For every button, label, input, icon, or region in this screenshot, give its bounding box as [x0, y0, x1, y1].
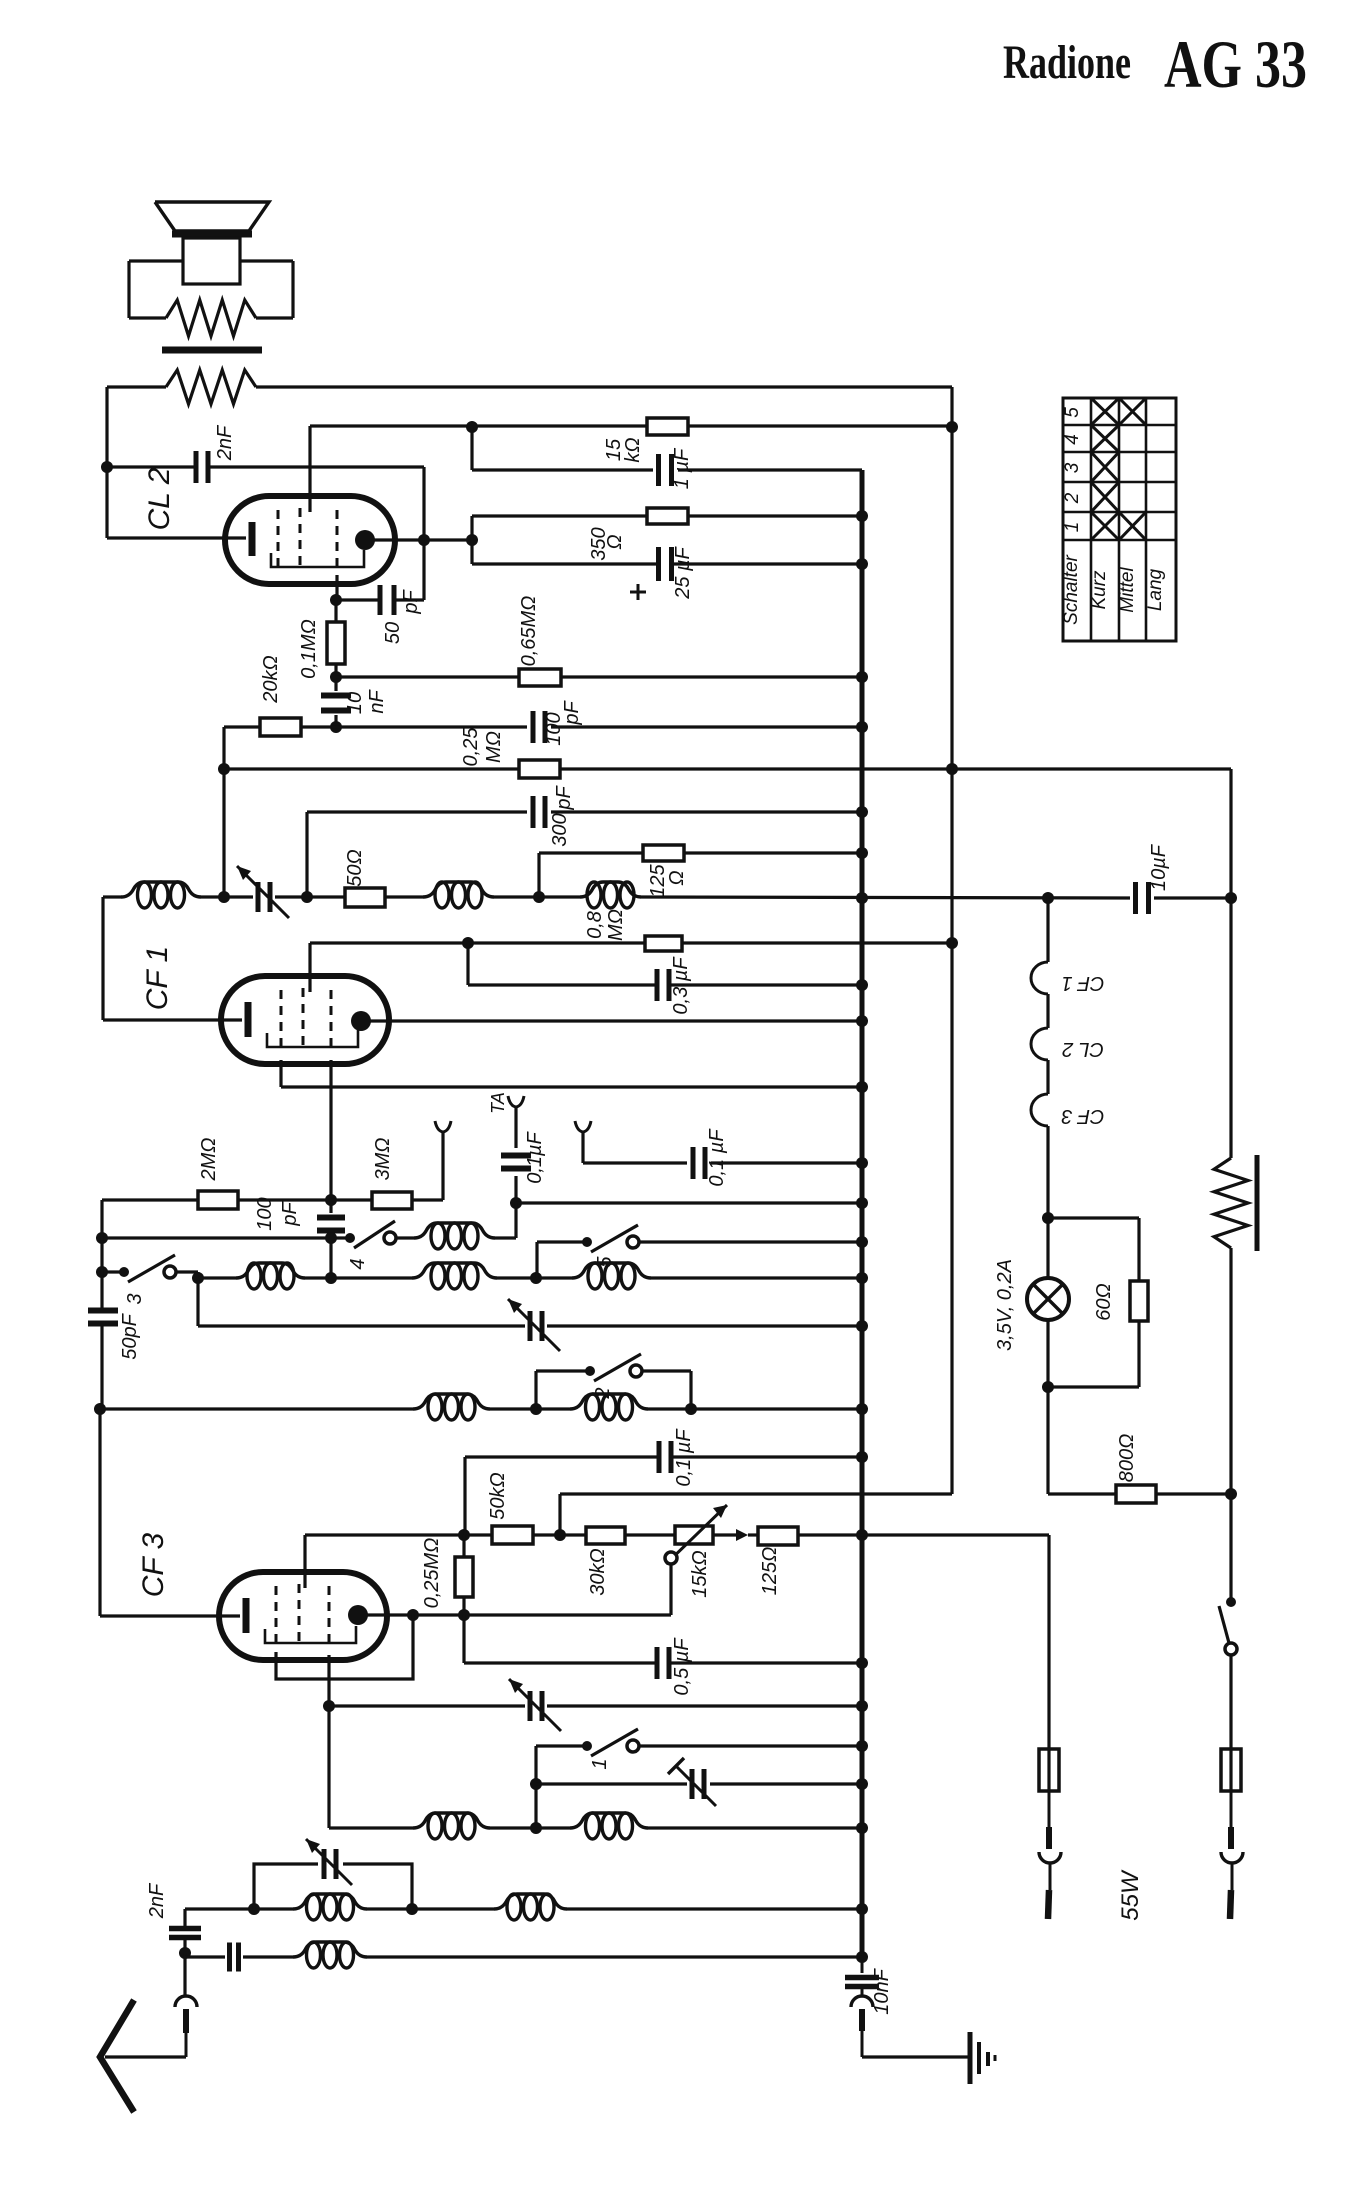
svg-text:pF: pF — [400, 589, 422, 615]
svg-text:25 µF: 25 µF — [672, 545, 694, 599]
resistor 60Ohm — [1048, 1218, 1148, 1387]
node junction x307/897 — [301, 891, 313, 903]
label 100pF upper — [543, 700, 583, 746]
label 50pF — [382, 589, 422, 645]
svg-text:0,1 µF: 0,1 µF — [673, 1428, 695, 1487]
inductor L12 — [293, 1894, 367, 1920]
label 5 — [594, 1256, 616, 1268]
speaker LS cone — [155, 202, 269, 234]
svg-text:CF 3: CF 3 — [137, 1532, 170, 1597]
capacitor 10uF — [1136, 882, 1149, 914]
node junction 0.65M row — [330, 671, 342, 683]
tube CF3 grid dashes — [276, 1584, 329, 1648]
variable capacitor C-tune3 — [509, 1679, 561, 1731]
resistor 0.8MOhm — [645, 936, 682, 951]
tube CF1 grid line from top — [308, 943, 311, 992]
node junction x691/1409 — [685, 1403, 697, 1415]
svg-text:Ω: Ω — [604, 534, 626, 549]
node bus junction y985 — [856, 979, 868, 991]
node junction x331/1238 — [325, 1232, 337, 1244]
inductor L2 — [423, 882, 494, 908]
node bus junction y516 — [856, 510, 868, 522]
resistor 0.1MOhm — [327, 622, 345, 664]
inductor L11 — [570, 1813, 648, 1839]
svg-text:2MΩ: 2MΩ — [198, 1138, 220, 1182]
tube CF1 anode dot — [351, 1011, 371, 1031]
svg-text:0,8: 0,8 — [584, 911, 606, 939]
node junction x254/1909 — [248, 1903, 260, 1915]
svg-text:MΩ: MΩ — [605, 909, 627, 941]
resistor 50kOhm — [492, 1526, 533, 1544]
label 15kOhm — [603, 437, 644, 462]
wire CF1 anode row — [370, 1019, 862, 1022]
label 50kOhm — [487, 1472, 509, 1519]
svg-text:50kΩ: 50kΩ — [487, 1472, 509, 1519]
inductor L10 — [413, 1813, 490, 1839]
label 10uF — [1148, 843, 1170, 891]
node bus junction y1087 — [856, 1081, 868, 1093]
speaker frame / transformer secondary box — [129, 261, 293, 318]
svg-text:Ω: Ω — [666, 870, 688, 885]
resistor 0.25MOhm vertical — [455, 1557, 473, 1597]
node junction y943/x952 — [946, 937, 958, 949]
switch contact 4 — [345, 1221, 396, 1248]
wire cathode row y1706 — [329, 1704, 862, 1707]
wire agc riser x465 — [463, 1457, 466, 1535]
node bus junction y1828 — [856, 1822, 868, 1834]
resistor 125Ohm lower — [758, 1527, 798, 1545]
tube CL2 envelope — [225, 496, 395, 584]
label heater CF1 — [1062, 972, 1105, 994]
tube CL2 cathode bar — [249, 522, 256, 556]
tube CF3 cathode bar — [243, 1598, 250, 1633]
svg-text:4: 4 — [1062, 434, 1083, 445]
node junction x185/1953 — [179, 1947, 191, 1959]
node junction x329/1706 — [323, 1700, 335, 1712]
variable capacitor C-ant — [306, 1839, 352, 1885]
transformer core — [162, 347, 262, 354]
wire left riser x224 — [222, 727, 225, 897]
node junction x536/1278 — [530, 1272, 542, 1284]
wire switch1 left — [536, 1746, 584, 1828]
node junction lamp top — [1042, 1212, 1054, 1224]
ground jack — [851, 1987, 873, 2057]
svg-text:20kΩ: 20kΩ — [260, 655, 282, 703]
inductor L3 — [580, 882, 641, 908]
node junction lamp bottom — [1042, 1381, 1054, 1393]
svg-text:60Ω: 60Ω — [1093, 1283, 1115, 1320]
label 50pF band — [119, 1312, 141, 1359]
node bus junction y1909 — [856, 1903, 868, 1915]
wire riser x539 — [537, 853, 540, 897]
wire left drop from transformer — [105, 387, 108, 538]
wire 350 row — [472, 514, 862, 517]
node bus junction y812 — [856, 806, 868, 818]
label 10nF — [344, 689, 388, 715]
wire 25uF row — [472, 562, 862, 565]
svg-text:0,3 µF: 0,3 µF — [670, 956, 692, 1015]
wire CL2 screen drop x337 — [335, 575, 338, 600]
capacitor 0.3uF — [657, 969, 669, 1001]
label 0.65MOhm — [518, 596, 540, 667]
wire CF1 cathode chain x331 — [329, 1060, 332, 1278]
node bus junction y1278 — [856, 1272, 868, 1284]
svg-text:300: 300 — [549, 813, 571, 846]
wire 0.1uF agc row — [465, 1455, 862, 1458]
bus line vertical — [860, 470, 865, 1959]
wire row y1238 — [102, 1236, 347, 1239]
label 60Ohm — [1093, 1283, 1115, 1320]
label 4 — [347, 1258, 369, 1269]
wire 1uF riser x472 — [470, 427, 473, 470]
node bus junction y564 — [856, 558, 868, 570]
wire right mains column — [1229, 769, 1232, 1600]
wire mains column left — [1047, 1535, 1050, 1749]
label 55W — [1117, 1869, 1144, 1921]
wire varcap row y1326 — [198, 1324, 862, 1327]
label 2 — [592, 1387, 614, 1399]
node junction x102/1238 — [96, 1232, 108, 1244]
node junction x224/897 — [218, 891, 230, 903]
svg-text:50Ω: 50Ω — [344, 849, 366, 886]
label 10nF ground — [871, 1967, 893, 2014]
capacitor 2nF — [196, 451, 208, 483]
node bus junction y1242 — [856, 1236, 868, 1248]
label 3MOhm — [372, 1138, 394, 1181]
capacitor series antenna — [230, 1943, 239, 1972]
node junction x198/1278 — [192, 1272, 204, 1284]
svg-text:Radione: Radione — [1003, 36, 1131, 89]
svg-text:3: 3 — [1062, 462, 1083, 473]
wire top line from transformer to right — [107, 385, 952, 388]
svg-text:0,5 µF: 0,5 µF — [671, 1637, 693, 1696]
node bus junction y1457 — [856, 1451, 868, 1463]
inductor L4 — [414, 1223, 495, 1249]
wire row y1203 — [516, 1201, 862, 1204]
wire screen row y1087 — [281, 1085, 862, 1088]
svg-text:50: 50 — [382, 622, 404, 644]
node junction 2nF row left — [101, 461, 113, 473]
label 0.8MOhm — [584, 909, 627, 941]
wire left column to CF3 — [98, 1409, 101, 1616]
svg-text:0,65MΩ: 0,65MΩ — [518, 596, 540, 667]
inductor L7 — [572, 1263, 651, 1289]
inductor L5 — [236, 1263, 305, 1289]
table Schalter — [1061, 398, 1176, 641]
node junction x952/427 — [946, 421, 958, 433]
resistor 20kOhm — [260, 718, 301, 736]
wire CF3 cathode lead — [100, 1614, 240, 1617]
svg-text:15kΩ: 15kΩ — [689, 1550, 711, 1597]
wire 20k row — [224, 725, 862, 728]
svg-text:kΩ: kΩ — [622, 437, 644, 462]
wire row y1828 — [329, 1826, 862, 1829]
svg-text:5: 5 — [1062, 407, 1083, 418]
node junction x331/1278 — [325, 1272, 337, 1284]
node junction x102/1272 — [96, 1266, 108, 1278]
switch contact 5 — [582, 1225, 639, 1252]
wire row y1909 — [185, 1907, 862, 1910]
node bus junction y1163 — [856, 1157, 868, 1169]
label 25uF — [672, 545, 694, 599]
label lamp — [994, 1259, 1016, 1351]
inductor L14 — [293, 1942, 367, 1968]
node bus junction y727 — [856, 721, 868, 733]
title AG 33 — [1164, 26, 1307, 102]
inductor L13 — [494, 1894, 567, 1920]
switch contact 1 — [582, 1729, 639, 1756]
wire feed line x952 — [560, 387, 952, 1494]
svg-text:AG 33: AG 33 — [1164, 26, 1307, 102]
capacitor 50pF — [337, 585, 424, 615]
svg-text:30kΩ: 30kΩ — [587, 1548, 609, 1595]
title Radione — [1003, 36, 1131, 89]
resistor 2MOhm — [198, 1191, 238, 1209]
antenna TA fork — [508, 1096, 524, 1148]
resistor 125Ohm upper — [643, 845, 684, 861]
switch contact 3 — [119, 1255, 176, 1282]
wire 0.5uF drop — [462, 1615, 465, 1663]
wire feed to 50k row — [558, 1494, 561, 1535]
wire trimmer row y1784 — [536, 1782, 862, 1785]
tube CF3 grid line from top — [303, 1535, 306, 1588]
label 0.1uF TA — [524, 1130, 546, 1183]
tube CF3 envelope — [219, 1572, 387, 1660]
svg-text:3,5V, 0,2A: 3,5V, 0,2A — [994, 1259, 1016, 1351]
transformer winding (speaker side) zigzag — [166, 300, 256, 336]
label 300pF — [549, 785, 575, 847]
node bus junction y1663 — [856, 1657, 868, 1669]
node junction y769/x952 — [946, 763, 958, 775]
svg-text:CF 3: CF 3 — [1062, 1105, 1105, 1127]
variable capacitor C-tune2 — [508, 1299, 560, 1351]
svg-text:CF 1: CF 1 — [141, 946, 174, 1010]
wire left column x102 — [100, 1200, 103, 1413]
speaker voice-coil box — [183, 238, 240, 284]
node bus junction y1409 — [856, 1403, 868, 1415]
svg-text:0,25MΩ: 0,25MΩ — [421, 1538, 443, 1609]
arrow wiper direction — [736, 1529, 748, 1541]
node junction x536/1828 — [530, 1822, 542, 1834]
node bus junction y1746 — [856, 1740, 868, 1752]
wire 50k row y1535 — [305, 1533, 1049, 1536]
lamp 3.5V 0.2A — [1027, 1218, 1069, 1387]
svg-text:3MΩ: 3MΩ — [372, 1138, 394, 1181]
node junction x516/1203 — [510, 1197, 522, 1209]
svg-text:1: 1 — [1062, 522, 1083, 533]
tube CL2 grid dashes — [278, 508, 337, 572]
label 125Ohm lower — [759, 1547, 781, 1596]
svg-text:2nF: 2nF — [214, 424, 236, 461]
node junction anode/424 — [418, 534, 430, 546]
capacitor 50pF band — [88, 1311, 118, 1324]
wire row y1272 stub — [102, 1270, 121, 1273]
tube CF3 anode dot — [348, 1605, 368, 1625]
tube CF1 grid dashes — [281, 988, 331, 1052]
wire row y1957 — [185, 1953, 862, 1957]
wire CL2 cathode lead — [107, 536, 246, 539]
svg-text:0,1µF: 0,1µF — [524, 1130, 546, 1183]
node junction x464/1615 — [458, 1609, 470, 1621]
wire switch1 to bus — [639, 1744, 862, 1747]
svg-text:10: 10 — [344, 692, 366, 714]
label 0.25MOhm — [460, 727, 505, 767]
resistor 50Ohm — [345, 888, 385, 907]
plus sign 25uF — [630, 584, 646, 600]
svg-text:4: 4 — [347, 1258, 369, 1269]
resistor 0.25MOhm — [519, 760, 560, 778]
switch mains — [1219, 1597, 1237, 1749]
switch pot tap circle — [665, 1552, 677, 1615]
wire coil row y897 — [103, 897, 1231, 898]
wire 1uF row — [472, 468, 862, 471]
label CF1 — [141, 946, 174, 1010]
antenna A1 fork — [435, 1121, 451, 1200]
svg-text:55W: 55W — [1117, 1869, 1144, 1921]
svg-text:125Ω: 125Ω — [759, 1547, 781, 1596]
wire varcap row riser — [196, 1278, 199, 1326]
label 0.3uF — [670, 956, 692, 1015]
wire vertical grid-coupling x424 — [422, 467, 425, 600]
capacitor 2nF antenna — [169, 1909, 201, 1950]
node bus junction y1203 — [856, 1197, 868, 1209]
wire 2nF row — [107, 465, 424, 468]
resistor 30kOhm — [586, 1527, 625, 1544]
wire row y1409 — [100, 1407, 862, 1410]
node junction x413/1615 — [407, 1609, 419, 1621]
wire switch2 right drop — [642, 1371, 691, 1409]
node junction x539/897 — [533, 891, 545, 903]
node junction x560/1535 — [554, 1529, 566, 1541]
node junction x1048/898 — [1042, 892, 1054, 904]
wire lamp to 800 — [1046, 1387, 1049, 1494]
label 30kOhm — [587, 1548, 609, 1595]
node bus junction y1957 — [856, 1951, 868, 1963]
capacitor 100pF cathode — [317, 1218, 345, 1231]
svg-text:3: 3 — [124, 1293, 146, 1304]
node junction x536/1409 — [530, 1403, 542, 1415]
node junction y943/x468 — [462, 937, 474, 949]
node junction x536/1784 — [530, 1778, 542, 1790]
label 0.25MOhm vertical — [421, 1538, 443, 1609]
svg-text:Mittel: Mittel — [1117, 567, 1138, 613]
svg-text:CL 2: CL 2 — [143, 467, 176, 530]
svg-text:10nF: 10nF — [871, 1967, 893, 2014]
tube CF3 internal plate detail — [265, 1626, 356, 1643]
svg-text:2: 2 — [592, 1387, 614, 1399]
capacitor 0.1uF TA — [501, 1156, 531, 1169]
wire 0.65M row — [336, 675, 862, 678]
svg-text:TA: TA — [488, 1092, 508, 1114]
svg-text:0,1 µF: 0,1 µF — [706, 1128, 728, 1187]
wire CF3 anode row — [366, 1613, 671, 1616]
antenna symbol — [100, 2000, 134, 2112]
wire TA drop — [514, 1176, 517, 1203]
label 100pF cathode — [254, 1197, 301, 1230]
svg-text:Schalter: Schalter — [1061, 554, 1082, 624]
label heater CL2 — [1062, 1038, 1104, 1060]
resistor 15kOhm — [647, 418, 688, 435]
label 1uF — [671, 447, 693, 489]
node bus junction y1784 — [856, 1778, 868, 1790]
wire CF1 screen drop — [279, 1060, 282, 1087]
capacitor 100pF upper — [533, 711, 545, 743]
label 1 — [589, 1758, 611, 1769]
capacitor 300pF — [533, 796, 545, 828]
label 800Ohm — [1116, 1434, 1138, 1483]
wire grid-leak chain — [334, 600, 337, 727]
node bus junction y853 — [856, 847, 868, 859]
label 125Ohm upper — [647, 863, 688, 897]
wire left column x103 — [101, 897, 104, 1020]
svg-text:MΩ: MΩ — [483, 731, 505, 763]
node junction x412/1909 — [406, 1903, 418, 1915]
inductor L9 — [570, 1394, 648, 1420]
label 2nF — [214, 424, 236, 461]
svg-text:pF: pF — [561, 700, 583, 726]
label 0.1uF agc — [673, 1428, 695, 1487]
label 3 — [124, 1293, 146, 1304]
wire 300pF row — [307, 810, 862, 813]
capacitor 1uF — [659, 454, 672, 486]
label 0.1uF antenna — [706, 1128, 728, 1187]
node junction x1231/1494 — [1225, 1488, 1237, 1500]
wire CF3 cathode column — [327, 1655, 330, 1828]
capacitor 10nF ground — [845, 1958, 879, 1987]
resistor 0.65MOhm — [519, 669, 561, 686]
svg-text:CL 2: CL 2 — [1062, 1038, 1104, 1060]
ground symbol — [970, 2032, 995, 2084]
tube CL2 internal plate detail — [271, 550, 364, 567]
node bus junction y898 — [856, 892, 868, 904]
label 2nF antenna — [146, 1882, 168, 1919]
wire antenna lead — [105, 2055, 186, 2058]
svg-text:pF: pF — [279, 1201, 301, 1227]
wire switch5 left drop — [537, 1242, 584, 1278]
capacitor 0.1uF antenna — [693, 1147, 705, 1179]
antenna A2 fork — [575, 1121, 687, 1163]
wire 0.25M leads — [462, 1535, 465, 1615]
svg-text:CF 1: CF 1 — [1062, 972, 1105, 994]
svg-text:nF: nF — [366, 689, 388, 714]
tube CF1 envelope — [221, 976, 389, 1064]
wire CF1 cathode lead — [103, 1018, 242, 1021]
label 15kOhm pot — [689, 1550, 711, 1597]
wire 0.1uF antenna row — [711, 1161, 862, 1164]
wire riser x307 — [305, 812, 308, 897]
node junction y426/x472 — [466, 421, 478, 433]
wire CF1 grid row y943 — [310, 941, 468, 944]
wire grid3 loop — [276, 1615, 413, 1679]
capacitor 25uF electrolytic — [659, 547, 672, 581]
label CL2 — [143, 467, 176, 530]
wire switch2 left drop — [536, 1371, 587, 1409]
node junction x224/770 — [218, 763, 230, 775]
svg-text:800Ω: 800Ω — [1116, 1434, 1138, 1483]
fuse left — [1039, 1749, 1059, 1791]
svg-text:0,1MΩ: 0,1MΩ — [298, 619, 320, 679]
tube CL2 grid line from top — [308, 426, 311, 512]
node bus junction y1326 — [856, 1320, 868, 1332]
label 2MOhm — [198, 1138, 220, 1182]
wire ground lead — [862, 2055, 968, 2058]
node junction 20k row — [330, 721, 342, 733]
capacitor 0.1uF agc — [659, 1441, 671, 1473]
transformer primary winding zigzag — [166, 370, 256, 404]
wire row y1278 — [198, 1276, 862, 1279]
resistor barretter — [1214, 1155, 1257, 1251]
svg-text:100: 100 — [254, 1197, 276, 1230]
